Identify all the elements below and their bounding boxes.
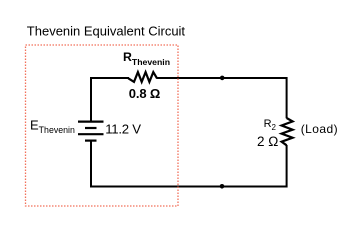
svg-text:EThevenin: EThevenin bbox=[30, 118, 75, 136]
svg-text:0.8 Ω: 0.8 Ω bbox=[129, 86, 160, 101]
battery E_Thevenin: short plate (bottom cell -) bbox=[85, 140, 97, 142]
resistor R_Thevenin (zigzag) bbox=[128, 72, 157, 82]
wire: top, R_Thevenin right lead to top-right corner bbox=[157, 77, 288, 79]
battery E_Thevenin: long plate (top cell +) bbox=[78, 120, 104, 122]
dashed Thevenin boundary box bbox=[26, 45, 179, 206]
svg-text:(Load): (Load) bbox=[301, 122, 338, 136]
wire: bottom rail bbox=[90, 186, 288, 188]
resistor R2 load (zigzag) bbox=[282, 118, 293, 145]
wire: right, top corner down to load resistor top lead bbox=[286, 77, 288, 118]
wire: left, top wire down to battery positive plate bbox=[90, 77, 92, 122]
node: bottom terminal junction dot bbox=[220, 184, 225, 189]
battery E_Thevenin: short plate (top cell -) bbox=[85, 127, 97, 129]
svg-text:RThevenin: RThevenin bbox=[123, 50, 170, 67]
node: top terminal junction dot bbox=[220, 76, 225, 81]
wire: right, load resistor bottom lead to bottom corner bbox=[286, 145, 288, 188]
svg-text:2 Ω: 2 Ω bbox=[257, 134, 278, 149]
svg-text:11.2 V: 11.2 V bbox=[105, 122, 141, 137]
svg-text:R2: R2 bbox=[264, 118, 277, 132]
svg-text:Thevenin Equivalent Circuit: Thevenin Equivalent Circuit bbox=[27, 24, 186, 39]
wire: left, battery negative plate down to bottom wire bbox=[90, 141, 92, 188]
wire: top, battery node to R_Thevenin left lead bbox=[90, 77, 129, 79]
battery E_Thevenin: long plate (bottom cell +) bbox=[78, 133, 104, 135]
